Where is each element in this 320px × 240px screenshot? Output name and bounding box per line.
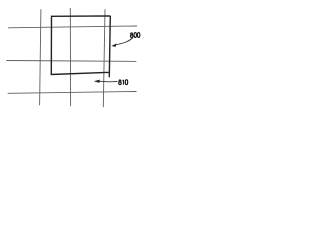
wire horizontal grid line H3 (8, 92, 137, 94)
wire vertical grid line V1 (40, 9, 41, 105)
node label 800 (130, 33, 139, 38)
node label 810 (119, 80, 128, 85)
wire leader arrow for 800 (114, 38, 134, 46)
patent-style grid figure with bold square and labels 800 / 810 (0, 0, 150, 120)
wire horizontal grid line H2 (6, 60, 136, 63)
wire leader arrow for 810 (99, 80, 118, 83)
wire horizontal grid line H1 (8, 26, 137, 28)
wire vertical grid line V2 (69, 8, 71, 106)
wire vertical grid line V3 (103, 9, 105, 107)
node 800 bold square outline (right edge overshoots bottom corner) (51, 16, 110, 77)
